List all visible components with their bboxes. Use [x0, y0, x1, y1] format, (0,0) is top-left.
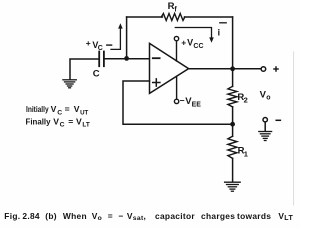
svg-text:V: V: [76, 117, 82, 127]
wire feedback left vertical: [126, 17, 128, 58]
resistor R2: [228, 86, 237, 107]
wire R1 bottom stub: [232, 158, 234, 181]
svg-text:V: V: [51, 104, 57, 114]
label Rf: [168, 1, 178, 14]
resistor R1: [228, 136, 237, 158]
terminal output plus: [261, 67, 266, 72]
svg-text:C: C: [60, 122, 65, 129]
wire op-amp output: [189, 68, 262, 70]
label Vo: [260, 89, 271, 101]
svg-text:V: V: [53, 117, 59, 127]
svg-text:2: 2: [244, 96, 248, 105]
ground G2 (under R1): [225, 182, 241, 191]
current arrow (left, pointing up): [111, 23, 123, 49]
svg-text:V: V: [187, 37, 193, 47]
svg-text:+: +: [181, 38, 186, 48]
wire R2 top stub: [232, 69, 234, 87]
node junction B (output node): [230, 66, 235, 71]
svg-text:UT: UT: [80, 109, 89, 116]
svg-text:V: V: [74, 104, 80, 114]
svg-text:Initially: Initially: [26, 104, 49, 114]
caption Fig. 2.84 (b): [0, 211, 300, 223]
wire top feedback horizontal left segment: [127, 16, 163, 18]
label C: [93, 68, 100, 79]
capacitor C: [99, 52, 104, 67]
wire non-inverting input to divider node: [123, 81, 233, 124]
label +Vcc: [181, 37, 203, 50]
pin +Vcc stub and terminal: [174, 36, 178, 61]
svg-text:o: o: [266, 95, 270, 102]
pin -Vee stub and terminal: [174, 76, 178, 103]
resistor Rf: [161, 14, 185, 21]
svg-text:+: +: [86, 38, 91, 48]
op-amp non-inverting input plus sign: [153, 79, 160, 86]
svg-text:CC: CC: [193, 43, 203, 50]
svg-text:C: C: [93, 68, 100, 79]
ground G3 (under minus terminal): [259, 132, 272, 141]
current arrow i (top, pointing down): [175, 28, 214, 43]
ground G1 (left, under source wire): [63, 80, 76, 88]
label -Vee: [180, 96, 201, 109]
svg-text:EE: EE: [192, 101, 202, 108]
op-amp U1 triangle: [150, 43, 189, 93]
node junction A (inverting input node): [124, 56, 129, 61]
svg-text:f: f: [174, 7, 177, 14]
note text Initially Vc = Vut: [26, 104, 89, 116]
svg-text:LT: LT: [82, 122, 90, 129]
node junction C (divider node): [230, 122, 235, 127]
svg-text:C: C: [98, 45, 103, 52]
svg-text:1: 1: [244, 149, 248, 158]
terminal output minus: [263, 118, 267, 131]
op-amp inverting input minus sign: [153, 57, 160, 59]
wire capacitor to inverting input: [104, 58, 150, 60]
page edge faint line: [293, 52, 295, 205]
svg-text:=: =: [65, 104, 70, 114]
label R2: [237, 92, 247, 105]
note text Finally Vc = Vlt: [26, 117, 91, 129]
label + Vc - (capacitor polarity): [86, 38, 112, 52]
svg-text:i: i: [218, 28, 221, 39]
wire ground branch left corner: [70, 59, 99, 79]
label i with overbar: [218, 23, 227, 39]
wire feedback right vertical: [232, 17, 234, 69]
wire R2 bottom stub: [232, 107, 234, 124]
wire top feedback horizontal right segment: [185, 16, 233, 18]
wire R1 top stub: [232, 124, 234, 136]
svg-text:C: C: [57, 109, 62, 116]
label plus terminal: [274, 67, 278, 71]
label minus terminal: [276, 119, 280, 121]
svg-text:Finally: Finally: [26, 117, 51, 127]
svg-text:−: −: [180, 96, 185, 106]
svg-text:=: =: [68, 117, 73, 127]
label R1: [238, 146, 248, 159]
